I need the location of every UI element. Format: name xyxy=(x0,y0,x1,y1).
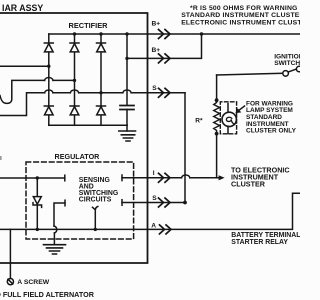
wire A screw drop xyxy=(9,229,11,278)
alternator assembly box (IAR ASSY) xyxy=(0,13,148,263)
svg-text:B+: B+ xyxy=(152,21,161,28)
terminal arrow A xyxy=(160,225,172,234)
wire phase 3 continue xyxy=(53,92,70,94)
diode D4 (bottom left) xyxy=(44,106,53,115)
wire S to terminal xyxy=(131,92,185,94)
diode D1 (top left) xyxy=(44,43,53,52)
leader arrowhead xyxy=(235,108,241,113)
wire S riser down to regulator S xyxy=(184,93,186,203)
terminal tick S (regulator) xyxy=(121,200,123,206)
wire stator phase 1 xyxy=(0,65,49,67)
svg-text:*R IS 500 OHMS FOR WARNING LAM: *R IS 500 OHMS FOR WARNING LAMP xyxy=(190,5,300,12)
zener diode Z1 xyxy=(33,197,42,208)
terminal tick sensing xyxy=(64,175,66,181)
wire ignition switch feed xyxy=(217,73,283,75)
svg-text:STARTER RELAY: STARTER RELAY xyxy=(231,239,288,246)
wire phase 3 to diode string 3 xyxy=(79,92,101,94)
wire I to cluster xyxy=(190,177,219,179)
wire I output xyxy=(122,177,182,179)
diode D2 (top middle) xyxy=(70,43,79,52)
svg-text:CLUSTER ONLY: CLUSTER ONLY xyxy=(246,128,297,135)
svg-text:CIRCUITS: CIRCUITS xyxy=(79,197,112,204)
wire S hop over capacitor branch xyxy=(123,90,131,93)
svg-text:IAR ASSY: IAR ASSY xyxy=(2,3,43,13)
lamp stub bottom xyxy=(227,126,229,133)
wire B+ second output xyxy=(127,34,202,58)
regulator dashed box xyxy=(26,162,134,239)
ignition switch contact 2 xyxy=(296,66,302,72)
wire sensing input (from left edge) xyxy=(0,177,65,179)
junction phase2-diode string2 xyxy=(73,79,76,82)
svg-text:ELECTRONIC INSTRUMENT CLUSTER: ELECTRONIC INSTRUMENT CLUSTER xyxy=(181,19,300,26)
junction S riser - S wire xyxy=(183,201,187,205)
terminal arrow B+ (second) xyxy=(159,54,171,63)
terminal tick I xyxy=(121,175,123,181)
ignition switch contact 1 xyxy=(283,71,289,77)
svg-text:R*: R* xyxy=(195,117,203,124)
wire phase 3 hop over string 2 xyxy=(70,90,78,93)
svg-text:B+: B+ xyxy=(152,47,161,54)
wire stator phase 2 with coil hook xyxy=(0,80,45,103)
wire phase 2 to diode string 2 xyxy=(53,79,75,81)
terminal arrow S (top) xyxy=(159,88,171,97)
wire stator phase 3 (S tap) xyxy=(0,93,45,116)
warning lamp bulb xyxy=(222,112,236,126)
junction zener-sensing xyxy=(36,176,39,179)
lamp stub top xyxy=(227,104,229,113)
svg-text:S: S xyxy=(152,195,157,202)
svg-text:S: S xyxy=(152,85,157,92)
svg-text:I: I xyxy=(153,170,155,177)
terminal arrow S (regulator) xyxy=(159,198,171,207)
svg-text:CLUSTER: CLUSTER xyxy=(231,179,266,188)
svg-text:RECTIFIER: RECTIFIER xyxy=(69,21,109,30)
wire S inside assembly xyxy=(101,92,123,94)
label IGNITION SWITCH xyxy=(274,54,304,67)
junction capacitor branch - second B+ xyxy=(125,57,128,60)
screw slash xyxy=(8,279,13,284)
wire rectifier negative rail xyxy=(49,124,127,126)
wire hop over A bus xyxy=(54,226,57,233)
note *R IS 500 OHMS xyxy=(181,5,320,26)
diode string 3 vertical xyxy=(100,34,102,125)
junction phase1-diode string1 xyxy=(47,65,50,68)
wire A bus (regulator A screw to battery) xyxy=(0,193,300,229)
junction rail-capacitor branch xyxy=(125,32,128,35)
junction R* bottom xyxy=(215,132,219,136)
junction leader-A bus xyxy=(94,228,97,231)
label BATTERY TERMINAL STARTER RELAY xyxy=(231,232,300,246)
leader squiggle circuits to A bus xyxy=(93,207,98,230)
svg-text:A: A xyxy=(151,223,156,230)
svg-text:SWITCH: SWITCH xyxy=(274,60,300,67)
wire lamp node vertical (top) xyxy=(216,75,218,100)
junction rail-diode2 xyxy=(73,32,76,35)
terminal arrow I xyxy=(159,173,171,182)
wire I hop over S riser xyxy=(182,175,190,178)
junction phase3-diode string3 (S node) xyxy=(99,91,102,94)
junction zener-A bus xyxy=(36,228,39,231)
wire B+ top rail (rectifier positive rail to B+ terminal) xyxy=(49,33,300,35)
capacitor C1 plates xyxy=(120,106,134,110)
label TO ELECTRONIC INSTRUMENT CLUSTER xyxy=(231,165,290,188)
label FOR WARNING LAMP SYSTEM STANDARD INSTRUMENT CLUSTER ONLY xyxy=(246,100,297,134)
wire phase 2 hop over string 1 xyxy=(45,78,53,81)
wire zener vertical xyxy=(36,178,38,229)
wire capacitor branch vertical xyxy=(126,34,128,105)
svg-text:STANDARD INSTRUMENT CLUSTER: STANDARD INSTRUMENT CLUSTER xyxy=(181,12,300,19)
screw terminal symbol xyxy=(7,279,13,285)
wire switching circuits to ground xyxy=(54,203,65,226)
cut-off artifact left edge xyxy=(0,156,2,160)
wire to regulator ground xyxy=(53,233,55,245)
diode D5 (bottom middle) xyxy=(70,106,79,115)
arrowhead to electronic instrument cluster xyxy=(219,175,225,180)
dashed optional-lamp outline xyxy=(220,102,236,134)
terminal tick switching xyxy=(64,200,66,206)
resistor R* xyxy=(214,100,220,133)
diode string 1 vertical xyxy=(48,34,50,125)
junction R* top xyxy=(215,98,219,102)
wire capacitor to ground xyxy=(126,110,128,132)
wire phase 3 hop over string 1 xyxy=(45,90,53,93)
leader arrow to lamp xyxy=(238,106,245,111)
svg-text:TO FULL FIELD ALTERNATOR: TO FULL FIELD ALTERNATOR xyxy=(0,290,95,299)
junction rail-diode3 xyxy=(99,32,102,35)
lamp filament xyxy=(226,117,234,124)
diode D3 (top right) xyxy=(97,43,106,52)
ground (regulator) xyxy=(44,245,66,254)
ground (rectifier) xyxy=(119,131,136,141)
label SENSING AND SWITCHING CIRCUITS xyxy=(79,177,118,204)
diode D6 (bottom right) xyxy=(97,106,106,115)
junction B+ wires xyxy=(200,32,203,35)
ignition switch blade xyxy=(288,69,296,72)
wire S regulator output xyxy=(122,202,185,204)
diode string 2 vertical xyxy=(74,34,76,125)
svg-text:A SCREW: A SCREW xyxy=(17,279,49,286)
wire lamp node to I wire xyxy=(216,134,218,178)
svg-text:REGULATOR: REGULATOR xyxy=(55,152,101,161)
terminal arrow B+ (top) xyxy=(159,30,171,39)
